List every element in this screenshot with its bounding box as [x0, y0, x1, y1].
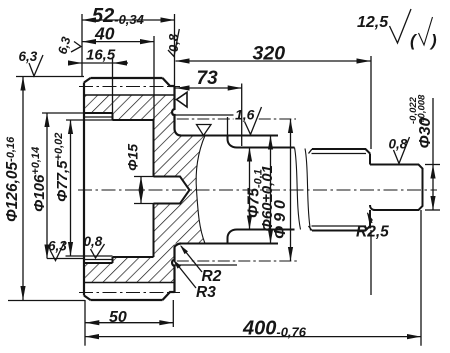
dim F77.5: [66, 120, 113, 256]
break line A: [295, 148, 301, 230]
spline pitch line bottom: [177, 260, 298, 262]
mark 1.6: [245, 107, 262, 135]
bore upper edge F106: [84, 112, 113, 114]
ext line gear left face up: [81, 14, 83, 77]
mark triangle on shaft: [197, 125, 212, 136]
bore lower edge F106: [84, 262, 113, 264]
svg-text:-0,022: -0,022: [408, 96, 419, 124]
svg-text:73: 73: [197, 68, 219, 89]
svg-text:16,5: 16,5: [86, 47, 116, 64]
svg-text:0,8: 0,8: [389, 137, 408, 152]
leader R2.5: [368, 213, 373, 223]
svg-text:Φ15: Φ15: [125, 144, 141, 171]
bore step wall bottom: [112, 257, 114, 263]
gear right face bottom: [172, 244, 181, 293]
dim F15: [134, 177, 180, 204]
svg-text:0,8: 0,8: [166, 33, 181, 52]
text mask for 1,6: [234, 108, 257, 121]
F75 surface top: [237, 147, 295, 149]
gear tooth root line top: [84, 94, 175, 96]
svg-text:Φ90: Φ90: [272, 196, 289, 239]
threaded section root bottom: [309, 226, 367, 231]
dim F90: [290, 119, 292, 261]
dim 52: [82, 19, 175, 21]
small end shaft: [370, 165, 423, 211]
gear outline: [84, 78, 175, 300]
svg-text:R3: R3: [196, 284, 216, 301]
dim 400: [85, 210, 421, 346]
mark open triangle on right face: [177, 92, 188, 107]
svg-text:1,6: 1,6: [235, 107, 255, 123]
bore upper edge F77.5: [113, 119, 154, 121]
leader R2: [181, 246, 202, 272]
break line B: [305, 149, 311, 231]
svg-text:50: 50: [109, 309, 127, 326]
svg-text:R2,5: R2,5: [356, 224, 389, 241]
svg-text:6,3: 6,3: [48, 239, 67, 254]
dim 40: [82, 41, 154, 43]
dim 73: [176, 84, 242, 147]
svg-text:): ): [429, 31, 437, 50]
threaded section crest bottom: [312, 226, 370, 231]
svg-text:320: 320: [253, 43, 286, 65]
threaded section root top: [309, 149, 367, 154]
gear pitch line top: [79, 86, 180, 88]
dim F60: [270, 136, 272, 244]
svg-text:0,8: 0,8: [84, 234, 103, 249]
svg-text:40: 40: [94, 24, 115, 44]
hole F15 outline: [154, 177, 190, 204]
mark 0.8 right: [394, 137, 410, 164]
dim F106: [42, 113, 84, 259]
svg-text:12,5: 12,5: [357, 14, 389, 31]
main axis centerline: [78, 189, 437, 191]
gear tooth root line bottom: [84, 282, 175, 284]
shoulder face: [228, 136, 238, 148]
dim 50: [85, 300, 173, 327]
gear right face top: [172, 86, 181, 136]
dim 320: [176, 56, 372, 295]
bore lower groove line: [84, 259, 113, 261]
gear pitch line bottom: [79, 292, 180, 294]
dim 16.5: [68, 58, 128, 113]
bore upper groove line: [84, 116, 113, 118]
general mark 12.5: [390, 9, 412, 43]
F75 surface bottom: [237, 229, 295, 231]
dim F126.05: [8, 77, 85, 301]
dim F75: [249, 148, 251, 230]
shaft surface line top (F90 root): [181, 135, 278, 137]
spline major line top: [174, 114, 238, 116]
dim F30: [425, 98, 440, 210]
svg-text:R2: R2: [202, 268, 222, 285]
thread right face: [369, 154, 371, 227]
spline major line bottom: [174, 264, 238, 266]
shaft surface line bottom: [181, 243, 278, 245]
ext line gear right face up: [174, 14, 176, 86]
web left face: [153, 120, 155, 257]
shoulder face bottom: [228, 230, 238, 244]
section break wavy line at gear: [196, 136, 205, 244]
ext line 40 right: [153, 36, 155, 120]
svg-text:6,3: 6,3: [19, 49, 38, 64]
mark 6.3 top left: [29, 55, 43, 76]
spline pitch line top: [177, 118, 296, 120]
mark 0.8 on gear right face ext: [168, 29, 179, 57]
bore lower edge F77.5: [113, 256, 154, 258]
bore step wall top: [112, 113, 114, 120]
mark 6.3 on left face ext: [71, 42, 81, 53]
threaded section crest top: [312, 149, 370, 154]
mark 6.3 at F77.5: [50, 241, 65, 261]
mark 0.8 in bore: [91, 244, 105, 258]
leader R3: [174, 261, 196, 289]
hatched section of gear body: [84, 95, 205, 283]
